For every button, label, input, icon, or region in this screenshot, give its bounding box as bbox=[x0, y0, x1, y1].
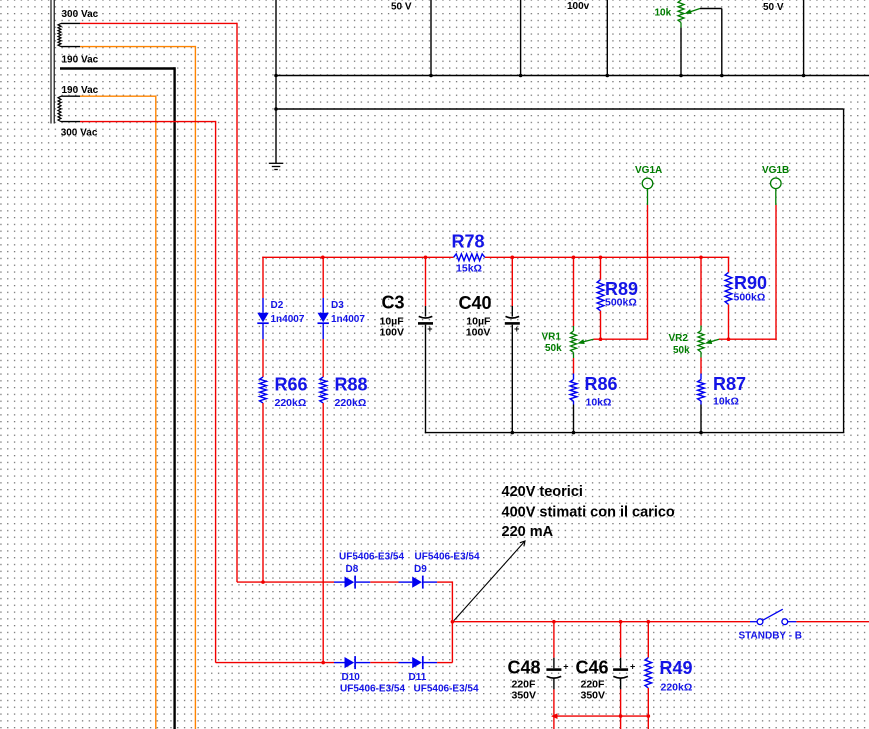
svg-text:D2: D2 bbox=[271, 300, 284, 311]
node VG1A terminal bbox=[642, 178, 653, 189]
svg-text:D3: D3 bbox=[331, 300, 344, 311]
wire stub x520 bbox=[520, 0, 522, 76]
junction dot AC node bottom bbox=[321, 661, 325, 665]
junction dot R89 bottom bbox=[599, 337, 603, 341]
wire R49 bottom bbox=[647, 688, 649, 729]
potentiometer VR2 50k bbox=[698, 326, 719, 358]
svg-text:500kΩ: 500kΩ bbox=[605, 297, 637, 309]
svg-text:220kΩ: 220kΩ bbox=[335, 397, 367, 409]
wire VR1 branch upper bbox=[573, 257, 575, 326]
wire VR1 to R86 bbox=[573, 358, 575, 374]
wire R86 bottom bbox=[573, 405, 575, 433]
wire bottom black return rail bbox=[425, 432, 845, 434]
wire D9 to output corner bbox=[437, 581, 452, 662]
wire pot wiper to rail bbox=[700, 9, 722, 76]
wire C40 bottom bbox=[511, 325, 513, 433]
svg-text:D11: D11 bbox=[409, 672, 427, 683]
svg-text:UF5406-E3/54: UF5406-E3/54 bbox=[339, 551, 404, 562]
svg-text:R90: R90 bbox=[734, 273, 767, 293]
transformer core bbox=[51, 0, 54, 124]
diode D9 UF5406 bbox=[399, 576, 438, 589]
wire stub x803 bbox=[803, 0, 805, 76]
svg-text:10k: 10k bbox=[655, 8, 672, 19]
wire stub x607 bbox=[606, 0, 608, 76]
wire D3 branch upper bbox=[322, 257, 324, 298]
wire top vertical to ground bbox=[275, 0, 277, 163]
svg-text:50k: 50k bbox=[545, 343, 562, 354]
svg-text:D9: D9 bbox=[414, 564, 427, 575]
potentiometer VR1 50k bbox=[571, 326, 594, 358]
resistor R90 bbox=[725, 272, 732, 304]
resistor R86 bbox=[570, 374, 577, 405]
resistor R78 bbox=[454, 254, 485, 261]
svg-text:220kΩ: 220kΩ bbox=[275, 397, 307, 409]
svg-text:C3: C3 bbox=[382, 292, 405, 312]
ground symbol bbox=[269, 163, 284, 169]
transformer winding W2 190Vac/300Vac bottom bbox=[58, 96, 61, 121]
junction dot R90 bottom bbox=[727, 337, 731, 341]
svg-text:C46: C46 bbox=[576, 658, 609, 678]
wire R49 top bbox=[647, 622, 649, 658]
svg-text:50k: 50k bbox=[673, 345, 690, 356]
svg-text:190 Vac: 190 Vac bbox=[62, 85, 99, 96]
wire D11 to output corner bbox=[437, 662, 452, 664]
wire VR2 wiper line bbox=[719, 338, 777, 340]
svg-text:UF5406-E3/54: UF5406-E3/54 bbox=[340, 684, 405, 695]
junction dot output bbox=[451, 620, 455, 624]
wire 300Vac-top red to bridge bbox=[80, 23, 237, 582]
junction dots output taps bbox=[552, 620, 650, 624]
wire D2 to R66 bbox=[262, 339, 264, 377]
svg-text:350V: 350V bbox=[581, 689, 606, 701]
wire R88 to bridge AC node bbox=[322, 403, 324, 663]
wire after switch bbox=[796, 621, 869, 623]
wire R87 bottom bbox=[700, 405, 702, 433]
svg-text:C40: C40 bbox=[459, 293, 492, 313]
annotation arrow bbox=[454, 541, 525, 621]
svg-text:50 V: 50 V bbox=[763, 2, 784, 13]
svg-text:VG1A: VG1A bbox=[635, 165, 662, 176]
wire VR1 wiper line bbox=[594, 338, 649, 340]
wire D3 to R88 bbox=[322, 339, 324, 377]
resistor R66 bbox=[260, 377, 267, 403]
svg-text:100V: 100V bbox=[380, 327, 405, 339]
svg-text:500kΩ: 500kΩ bbox=[734, 291, 766, 303]
wire B+ output line bbox=[452, 621, 750, 623]
wire VR2 to R87 bbox=[700, 358, 702, 374]
wire R66 to bridge bbox=[262, 403, 264, 582]
svg-text:R87: R87 bbox=[713, 374, 746, 394]
svg-text:10kΩ: 10kΩ bbox=[713, 395, 739, 407]
svg-text:R78: R78 bbox=[451, 231, 484, 251]
svg-text:R88: R88 bbox=[335, 375, 368, 395]
svg-text:D10: D10 bbox=[342, 672, 361, 683]
svg-text:1n4007: 1n4007 bbox=[271, 314, 305, 325]
switch STANDBY - B bbox=[750, 609, 796, 624]
wire C40 top bbox=[511, 257, 513, 316]
svg-text:400V stimati con il carico: 400V stimati con il carico bbox=[502, 505, 675, 521]
wire VG1A down bbox=[647, 189, 649, 340]
wire W1 top stub bbox=[61, 22, 80, 24]
svg-text:R49: R49 bbox=[660, 658, 693, 678]
capacitor C3 bbox=[418, 316, 433, 334]
wire C3 top bbox=[425, 257, 427, 316]
junction dots on rail 1 bbox=[274, 74, 805, 78]
resistor R87 bbox=[698, 374, 705, 405]
capacitor C46 bbox=[613, 661, 635, 678]
wire VG1B down bbox=[775, 189, 777, 340]
wire main HV bus bbox=[262, 257, 729, 258]
svg-text:VR2: VR2 bbox=[669, 333, 689, 344]
svg-text:D8: D8 bbox=[346, 564, 359, 575]
svg-text:10µF: 10µF bbox=[466, 315, 491, 327]
capacitor C48 bbox=[546, 661, 568, 678]
wire between D8 D9 bbox=[370, 581, 398, 583]
svg-text:220 mA: 220 mA bbox=[502, 524, 554, 540]
wire C48 bottom bbox=[553, 678, 555, 729]
svg-text:C48: C48 bbox=[508, 658, 541, 678]
wire bridge top row in bbox=[237, 581, 334, 583]
wire D2 branch upper bbox=[262, 257, 264, 298]
svg-text:STANDBY - B: STANDBY - B bbox=[739, 631, 803, 642]
wire bottom cap return bbox=[553, 715, 649, 717]
wire C46 bottom bbox=[620, 678, 622, 729]
svg-text:UF5406-E3/54: UF5406-E3/54 bbox=[414, 684, 479, 695]
svg-text:VG1B: VG1B bbox=[762, 165, 789, 176]
svg-text:100v: 100v bbox=[567, 1, 590, 12]
resistor R89 bbox=[597, 280, 604, 311]
wire C46 top bbox=[620, 622, 622, 669]
wire W2 top stub bbox=[61, 95, 80, 97]
wire 190Vac orange right bbox=[80, 46, 195, 729]
node VG1B terminal bbox=[771, 178, 782, 189]
svg-text:UF5406-E3/54: UF5406-E3/54 bbox=[415, 551, 480, 562]
wire 300Vac-bottom red to bridge bbox=[80, 121, 216, 663]
svg-text:350V: 350V bbox=[512, 689, 537, 701]
diode D10 UF5406 bbox=[334, 656, 370, 669]
resistor R49 bbox=[645, 658, 652, 689]
wire pot bottom black bbox=[680, 28, 682, 76]
svg-text:1n4007: 1n4007 bbox=[331, 314, 365, 325]
wire C48 top bbox=[553, 622, 555, 669]
potentiometer 10k bbox=[678, 0, 700, 28]
svg-text:VR1: VR1 bbox=[542, 331, 562, 342]
wire 190Vac orange left bbox=[80, 96, 156, 729]
wire top horizontal rail 1 bbox=[276, 75, 869, 77]
wire top horizontal rail 2 bbox=[276, 109, 844, 433]
diode D8 UF5406 bbox=[334, 576, 370, 589]
wire R90 bottom bbox=[728, 304, 730, 339]
resistor R88 bbox=[320, 377, 327, 403]
wire VR2 branch upper bbox=[700, 257, 702, 325]
svg-text:R86: R86 bbox=[585, 374, 618, 394]
svg-text:50 V: 50 V bbox=[391, 2, 412, 13]
svg-text:420V teorici: 420V teorici bbox=[502, 484, 583, 500]
wire bridge bottom row in bbox=[216, 662, 334, 664]
svg-text:300 Vac: 300 Vac bbox=[62, 9, 99, 20]
diode D11 UF5406 bbox=[399, 656, 438, 669]
junction dots on HV bus bbox=[321, 255, 703, 259]
wire W2 bottom stub bbox=[61, 121, 80, 123]
svg-text:+: + bbox=[630, 661, 635, 671]
wire stub x431 bbox=[430, 0, 432, 76]
svg-text:+: + bbox=[514, 324, 519, 334]
junction arrowhead left end bbox=[551, 713, 558, 719]
wire R89 bottom bbox=[600, 311, 602, 339]
diode D3 1n4007 bbox=[318, 298, 329, 339]
svg-text:220kΩ: 220kΩ bbox=[661, 682, 693, 694]
wire R89 top bbox=[600, 257, 602, 279]
capacitor C40 bbox=[505, 316, 520, 334]
junction dot rail 2 bbox=[274, 107, 278, 111]
svg-text:15kΩ: 15kΩ bbox=[456, 263, 482, 275]
transformer winding W1 300Vac/190Vac top bbox=[58, 23, 61, 46]
diode D2 1n4007 bbox=[257, 298, 268, 339]
svg-text:+: + bbox=[427, 324, 432, 334]
junction dots cap return bbox=[619, 714, 650, 718]
svg-text:10kΩ: 10kΩ bbox=[586, 396, 612, 408]
wire C3 bottom bbox=[425, 325, 427, 434]
svg-text:100V: 100V bbox=[466, 327, 491, 339]
wire R90 top corner bbox=[728, 257, 730, 273]
svg-text:R66: R66 bbox=[275, 375, 308, 395]
svg-text:190 Vac: 190 Vac bbox=[62, 54, 99, 65]
wire between D10 D11 bbox=[370, 662, 398, 664]
svg-text:300 Vac: 300 Vac bbox=[61, 127, 98, 138]
wire 190Vac center thick black bbox=[60, 67, 175, 729]
junction dot D2 line on bridge bbox=[261, 580, 265, 584]
junction dots bottom rail bbox=[511, 431, 703, 435]
svg-text:10µF: 10µF bbox=[380, 315, 405, 327]
svg-text:+: + bbox=[563, 661, 568, 671]
wire W1 bottom stub bbox=[61, 46, 80, 48]
